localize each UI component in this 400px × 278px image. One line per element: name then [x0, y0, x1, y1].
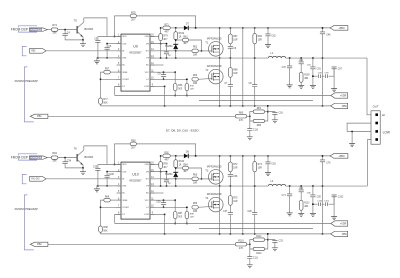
svg-text:C98: C98 [318, 73, 323, 75]
junction snubber bot [230, 105, 232, 107]
wire -B line [101, 233, 331, 235]
junction zener/VS [175, 185, 177, 187]
junction dec col bot [242, 233, 244, 235]
svg-text:2K7: 2K7 [131, 147, 136, 150]
svg-text:R65: R65 [193, 174, 198, 176]
wire DT/VDR line [115, 223, 331, 225]
svg-text:LO: LO [146, 79, 149, 81]
svg-text:R89: R89 [105, 197, 110, 199]
wire emitter-ground row [65, 39, 83, 41]
junction C46/-B [322, 233, 324, 235]
svg-text:10R: 10R [233, 73, 238, 75]
junction T1 source [219, 185, 221, 187]
capacitor C8 [249, 83, 258, 106]
svg-text:OCSET: OCSET [122, 207, 130, 209]
svg-text:OUT: OUT [373, 104, 379, 108]
svg-text:FROM PREAMP: FROM PREAMP [15, 207, 38, 211]
wire bottom output to OUT LOW [367, 140, 371, 186]
resistor R90 (VCC feed) [115, 140, 196, 165]
svg-text:C94: C94 [307, 64, 312, 66]
junction R102 top [175, 27, 177, 29]
capacitor C111 [247, 244, 258, 264]
svg-text:VREF: VREF [122, 200, 128, 202]
capacitor C7 [224, 77, 233, 106]
svg-text:R61: R61 [183, 36, 188, 38]
svg-text:C36: C36 [233, 176, 238, 178]
junction R66 top [254, 155, 256, 157]
svg-text:4R7: 4R7 [164, 160, 169, 162]
wire pin16 stub [150, 164, 159, 166]
svg-text:C63: C63 [271, 164, 276, 166]
svg-text:+VDR: +VDR [340, 95, 347, 98]
svg-text:R62: R62 [193, 46, 198, 48]
capacitor C95 [307, 186, 322, 213]
resistor R58 [185, 79, 194, 95]
resistor R72 [229, 156, 239, 172]
svg-text:FB1: FB1 [37, 115, 42, 118]
resistor R66 [253, 28, 263, 85]
svg-text:10R: 10R [190, 217, 194, 219]
junction C2 top [166, 171, 168, 173]
terminal block OUT [371, 104, 380, 144]
capacitor C4 [63, 30, 71, 40]
ground (C97) [331, 217, 337, 220]
resistor R59 [173, 72, 183, 95]
inductor L1 [268, 51, 286, 58]
svg-text:C97: C97 [338, 68, 343, 70]
svg-text:+B50: +B50 [338, 26, 345, 30]
junction pin7 col [100, 207, 102, 209]
svg-text:+VDR: +VDR [340, 223, 347, 226]
svg-text:40R: 40R [304, 206, 308, 208]
svg-text:R69: R69 [193, 203, 198, 205]
junction pin9 [164, 86, 166, 88]
svg-text:C96: C96 [307, 192, 312, 194]
wire pin7 row [101, 206, 122, 208]
junction zener/HO row [175, 50, 177, 52]
wire collector to pin1 column [84, 18, 107, 37]
wire fb to -B [267, 234, 269, 240]
junction fb/-B [267, 105, 269, 107]
svg-text:C71: C71 [282, 195, 287, 197]
svg-text:C8: C8 [249, 83, 253, 85]
svg-text:R72: R72 [233, 164, 238, 166]
svg-text:R82: R82 [257, 125, 262, 127]
junction snubber bot [230, 233, 232, 235]
wire input row [47, 29, 51, 31]
op-amp driver IC U10 IRS20957 [117, 162, 155, 219]
junction zener/VS [175, 57, 177, 59]
junction pin7 col [100, 79, 102, 81]
junction C8 bot [254, 233, 256, 235]
wire pin3 row (input signal) [46, 178, 121, 180]
op-amp driver IC U9 IRS20957 [117, 34, 155, 91]
svg-text:R71: R71 [164, 24, 169, 26]
svg-text:C101: C101 [324, 201, 330, 203]
junction C9 bot [163, 79, 165, 81]
svg-text:LO: LO [146, 207, 149, 209]
junction C98 row [312, 203, 314, 205]
svg-text:C37: C37 [223, 211, 228, 213]
capacitor C100 [313, 201, 323, 206]
ground (emitter) [80, 40, 86, 47]
junction R61/R102 [175, 167, 177, 169]
svg-text:10R: 10R [233, 167, 238, 169]
svg-text:IRS20957: IRS20957 [129, 178, 142, 182]
svg-text:VDD: VDD [122, 164, 127, 166]
junction R79 top [160, 27, 162, 29]
svg-text:10R: 10R [233, 201, 238, 203]
svg-text:T4: T4 [205, 196, 209, 200]
wire pin10 row [150, 78, 187, 80]
wire fb to -B [267, 106, 269, 112]
blue bus bracket lower [19, 31, 38, 32]
svg-text:R111: R111 [256, 236, 262, 238]
wire input row [47, 157, 51, 159]
svg-text:R92: R92 [164, 152, 169, 154]
junction R66/SW [254, 57, 256, 59]
wire OUT gnd col [351, 132, 353, 144]
junction R63 tap [186, 79, 188, 81]
junction C46/-B [322, 105, 324, 107]
svg-text:47K: 47K [239, 120, 244, 122]
svg-text:R75: R75 [233, 198, 238, 200]
svg-text:R59: R59 [178, 85, 183, 87]
svg-text:R110: R110 [238, 240, 244, 242]
ground (C70) [287, 213, 293, 216]
junction R58/lineA [186, 95, 188, 97]
svg-text:R80: R80 [239, 112, 244, 114]
transistor T1 IRFR24N15D (high side) [205, 28, 223, 58]
svg-text:R109: R109 [304, 75, 310, 77]
junction C46 top [322, 155, 324, 157]
junction strap/SW [160, 57, 162, 59]
connector -B [331, 231, 348, 236]
transistor T2 IRFR24N15D (low side) [205, 58, 223, 106]
svg-text:C102: C102 [338, 196, 344, 198]
ground (VSS) [94, 58, 100, 64]
junction FB split [249, 116, 251, 118]
svg-text:10K: 10K [52, 160, 57, 163]
zener diode D6 TMZ5A [165, 168, 178, 186]
svg-text:R63: R63 [193, 75, 198, 77]
transistor T6 BC846 [74, 146, 94, 168]
connector +B (A) [330, 26, 348, 31]
junction rail/R70col [195, 27, 197, 29]
junction filter col3 [312, 185, 314, 187]
junction OUT gnd [351, 131, 353, 133]
junction dec col top [242, 27, 244, 29]
capacitor C31 (bootstrap) [164, 172, 172, 186]
capacitor C18 [268, 112, 284, 120]
junction C2/SW [166, 185, 168, 187]
svg-text:C62: C62 [271, 36, 276, 38]
net label FROM PREAMP (B) [15, 207, 38, 211]
svg-text:R102: R102 [179, 33, 185, 35]
capacitor C35 [93, 165, 100, 186]
svg-text:47K: 47K [239, 248, 244, 250]
note diode types [166, 128, 200, 132]
junction T1 source [219, 57, 221, 59]
capacitor C1 (bootstrap) [164, 44, 172, 58]
svg-text:VCC: VCC [145, 200, 150, 202]
svg-text:FROM DSP: FROM DSP [11, 155, 28, 159]
svg-text:C33: C33 [279, 241, 284, 243]
resistor R79 [159, 28, 169, 44]
svg-text:VSS: VSS [122, 186, 127, 188]
wire pin4 row VSS [96, 185, 121, 187]
capacitor C37 [223, 205, 233, 234]
zener diode D5 TMZ5A [165, 40, 178, 58]
wire pin8 DT loop [115, 214, 121, 223]
junction T2 source [219, 233, 221, 235]
blue preamp bracket [24, 67, 33, 122]
svg-text:4R7: 4R7 [183, 43, 188, 45]
wire pin9 stub [150, 213, 165, 215]
transistor T3 IRFR24N15D (high side) [205, 156, 223, 186]
svg-text:C99: C99 [325, 73, 330, 75]
svg-text:R88: R88 [190, 213, 195, 215]
svg-text:4K7: 4K7 [163, 39, 168, 41]
svg-text:D7, D8, D9, D10 - ES3D: D7, D8, D9, D10 - ES3D [166, 128, 200, 132]
svg-text:R94: R94 [52, 152, 57, 155]
connector FB1 [30, 114, 48, 118]
connector J9 (DSP input) [29, 28, 47, 32]
resistor R80 [235, 112, 250, 121]
resistor R68 [229, 58, 239, 77]
svg-text:COM: COM [144, 214, 149, 216]
capacitor C3 [94, 37, 100, 58]
blue bus bracket upper [19, 154, 38, 156]
junction filter col2 [300, 57, 302, 59]
wire pin7 row [101, 78, 122, 80]
blue preamp bracket [24, 195, 33, 250]
svg-text:R104: R104 [179, 161, 185, 163]
connector J10 [30, 48, 46, 53]
wire to base [58, 29, 77, 31]
svg-text:R68: R68 [233, 70, 238, 72]
resistor R87 [173, 200, 183, 223]
svg-text:R57: R57 [105, 69, 110, 71]
inductor L2 [268, 179, 286, 186]
resistor R82 [250, 112, 268, 127]
wire decoupling column [242, 156, 244, 234]
svg-text:FROM DSP: FROM DSP [11, 27, 28, 31]
junction dec col bot [242, 105, 244, 107]
capacitor C38 [247, 211, 257, 234]
svg-text:IRFR24N15D: IRFR24N15D [207, 65, 222, 68]
junction T1 drain [219, 27, 221, 29]
capacitor C76 [320, 156, 331, 234]
wire aux line [199, 227, 313, 229]
svg-text:4K7: 4K7 [163, 167, 168, 169]
junction R66/SW [254, 185, 256, 187]
svg-text:4R7: 4R7 [183, 171, 188, 173]
svg-text:U9: U9 [133, 44, 138, 48]
resistor R64 [176, 164, 202, 179]
wire +B rail [188, 155, 330, 157]
resistor R70 (VCC feed) [115, 12, 196, 37]
svg-text:40R: 40R [304, 78, 308, 80]
connector -B [331, 103, 348, 108]
resistor R110 [235, 240, 250, 249]
junction T1 drain [219, 155, 221, 157]
capacitor C34 [63, 158, 72, 168]
resistor R73 [253, 156, 263, 213]
svg-text:4R7: 4R7 [164, 32, 169, 34]
svg-text:10R: 10R [190, 89, 194, 91]
ground (VSS) [94, 186, 100, 192]
capacitor C105 [105, 172, 115, 186]
junction C9 bot [163, 207, 165, 209]
junction R59/lineA [174, 223, 176, 225]
resistor R65 (gate) [150, 174, 208, 184]
svg-text:C91: C91 [317, 68, 322, 70]
junction C46/SW [322, 57, 324, 59]
wire VB-VS strap [160, 44, 162, 58]
junction pin9 [164, 214, 166, 216]
svg-text:CSH: CSH [145, 36, 150, 38]
junction fb/-B [267, 233, 269, 235]
svg-text:HO: HO [146, 179, 149, 181]
svg-text:C4: C4 [67, 32, 71, 34]
junction emitter [82, 39, 84, 41]
connector +VDR [331, 221, 348, 226]
svg-text:R79: R79 [163, 35, 168, 37]
resistor R94 [51, 152, 58, 162]
ground (C91) [310, 85, 316, 88]
junction pin1/R col [114, 164, 116, 166]
junction R66 top [254, 27, 256, 29]
svg-text:DSDGH4: DSDGH4 [31, 29, 42, 32]
resistor R111 [250, 236, 268, 245]
net label FROM DSP (channel A) [11, 27, 28, 31]
svg-text:VDD: VDD [122, 36, 127, 38]
wire OUT pad2 [347, 123, 371, 131]
capacitor C98 [313, 73, 323, 78]
svg-text:C5: C5 [108, 46, 112, 48]
svg-text:C6: C6 [233, 48, 237, 50]
wire emitter-ground row [65, 167, 83, 169]
transistor T4 IRFR24N15D (low side) [205, 186, 223, 234]
ground (C91) [310, 213, 316, 216]
junction input/C cap [64, 29, 66, 31]
blue bracket (mute net) [22, 174, 26, 183]
junction gate T1 [201, 50, 203, 52]
ground (R109) [298, 85, 304, 88]
junction L1 out [289, 185, 291, 187]
svg-text:R67: R67 [233, 36, 238, 38]
svg-text:C100: C100 [317, 201, 323, 203]
svg-text:T1: T1 [205, 40, 209, 44]
resistor R67 [229, 28, 239, 44]
svg-text:BC846: BC846 [84, 155, 93, 159]
junction C62 top [267, 27, 269, 29]
svg-text:R73: R73 [258, 164, 263, 166]
svg-text:C76: C76 [326, 162, 331, 164]
junction C9 top [163, 199, 165, 201]
svg-text:10R: 10R [193, 83, 198, 85]
wire VB-VS strap [160, 172, 162, 186]
svg-text:U10: U10 [132, 172, 139, 176]
svg-text:C38: C38 [247, 211, 252, 213]
junction R61/R102 [175, 39, 177, 41]
svg-text:IRFR24N15D: IRFR24N15D [207, 37, 222, 40]
connector J11 (DSP input) [29, 156, 47, 160]
svg-text:CSD: CSD [122, 43, 127, 45]
svg-text:FB2: FB2 [37, 243, 42, 246]
capacitor C71 [282, 186, 293, 213]
svg-text:56K: 56K [103, 231, 108, 233]
svg-text:R81: R81 [257, 108, 262, 110]
junction VB pin15 [160, 43, 162, 45]
junction FB split [249, 244, 251, 246]
wire pin1 row [98, 36, 121, 38]
ground (C70) [287, 85, 293, 88]
capacitor C93 [299, 186, 304, 200]
svg-text:1n: 1n [168, 183, 171, 185]
ground (OUT) [349, 144, 355, 147]
resistor R81 [250, 108, 268, 117]
junction R59/lineA [174, 95, 176, 97]
wire OUT pad3 [347, 131, 371, 133]
svg-text:C70: C70 [282, 67, 287, 69]
junction R59 top [174, 199, 176, 201]
capacitor C6 [228, 44, 237, 58]
junction fb right [267, 239, 269, 241]
svg-text:D7: D7 [186, 23, 190, 25]
wire COM column [164, 214, 166, 234]
wire pin8 DT loop [115, 86, 121, 95]
junction COM/-B [164, 105, 166, 107]
diode D8 (bootstrap) [184, 151, 190, 158]
wire pin15 row [150, 43, 167, 45]
svg-text:OCSET: OCSET [122, 79, 130, 81]
wire COM column [164, 86, 166, 106]
svg-text:1K: 1K [179, 165, 182, 167]
svg-text:R58: R58 [190, 85, 195, 87]
net label FROM DSP (channel B) [11, 155, 28, 159]
wire pin12 stub [150, 64, 164, 66]
svg-text:-B50: -B50 [342, 105, 348, 108]
ground (C110) [247, 137, 253, 140]
svg-text:10R: 10R [233, 39, 238, 41]
svg-text:VSS: VSS [122, 58, 127, 60]
wire DT/VDR line [115, 95, 331, 97]
wire decoupling column [242, 28, 244, 106]
svg-text:LOW: LOW [383, 130, 391, 134]
ground (C110) [247, 265, 253, 268]
svg-text:R74: R74 [52, 24, 57, 27]
svg-text:R64: R64 [183, 164, 188, 166]
connector J12 [30, 176, 46, 181]
svg-text:1n: 1n [168, 55, 171, 57]
junction C46/SW [322, 185, 324, 187]
junction R79 top [160, 155, 162, 157]
svg-text:C110: C110 [253, 130, 259, 132]
wire pin16 stub [150, 36, 159, 38]
connector +VDR [331, 93, 348, 98]
resistor R113 [299, 200, 310, 213]
svg-text:HI: HI [382, 113, 385, 117]
wire pin1 row [98, 164, 121, 166]
svg-text:10R: 10R [193, 55, 198, 57]
wire collector to pin1 column [84, 146, 107, 165]
junction dec col top [242, 155, 244, 157]
svg-text:C46: C46 [326, 34, 331, 36]
blue bracket (mute net) [22, 46, 26, 55]
junction filter col3 [312, 57, 314, 59]
